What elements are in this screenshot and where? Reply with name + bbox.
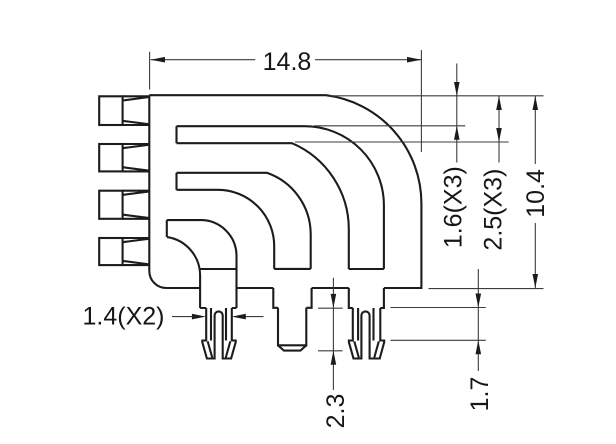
left feet chamfer lines (208, 341, 231, 357)
slot S3 inner wall into left block left side (167, 237, 200, 308)
right feet chamfer lines (354, 341, 379, 357)
ext line body bottom right (429, 288, 544, 290)
dim 14.8 extension line right (420, 50, 422, 152)
right block (349, 288, 384, 308)
slot S1 closed end (175, 126, 177, 143)
left snap legs with barbed feet (202, 308, 235, 359)
ext line body top right (330, 95, 544, 97)
slot S1 bottom closure (349, 268, 384, 270)
slot S1 inner wall (177, 143, 349, 269)
slot S1 outer wall (177, 126, 384, 269)
dim 2.3 line and arrows (332, 278, 334, 390)
prong 2 horn lines (123, 144, 150, 171)
slot S2 outer wall (177, 173, 311, 269)
prong 2 box (99, 144, 122, 171)
ext line slot1 bottom (295, 141, 509, 143)
dim 14.8 extension line left (149, 52, 151, 90)
svg-text:10.4: 10.4 (522, 169, 550, 218)
centre pin block (273, 288, 311, 308)
dim 14.8 arrowheads (151, 57, 165, 63)
left block parting line (200, 268, 236, 270)
svg-text:1.7: 1.7 (466, 377, 494, 412)
prong 1 box (99, 96, 122, 125)
right legs inner edge lines (358, 308, 373, 341)
ext lines for dim 2.3 (318, 308, 343, 351)
svg-text:1.4(X2): 1.4(X2) (83, 302, 165, 330)
left block bottom segments (200, 307, 236, 309)
dim 14.8 line (151, 59, 422, 61)
svg-text:1.6(X3): 1.6(X3) (440, 166, 468, 248)
body bottom edge segments (237, 287, 349, 289)
body outline top/right (149, 95, 421, 288)
dim 1.7 line and arrows (477, 269, 479, 371)
slot S2 inner wall (177, 190, 275, 269)
dim 2.5(X3) line and arrows (498, 96, 500, 163)
body outline left edge and bottom-left fillet (149, 95, 200, 288)
dim 1.4(X2) arrowheads (192, 314, 206, 320)
slot S3 closed end (166, 220, 168, 237)
slot S2 closed end (175, 173, 177, 190)
slot S3 outer wall into left block right side (167, 220, 237, 308)
slot S2 bottom closure (274, 268, 311, 270)
svg-text:14.8: 14.8 (263, 48, 312, 76)
prong 3 horn lines (123, 191, 150, 219)
dim 10.4 line and arrows (534, 96, 536, 288)
ext lines for dim 1.7 (390, 308, 485, 341)
right snap legs with barbed feet (349, 308, 384, 359)
prong 1 horn lines (123, 96, 150, 125)
prong 4 horn lines (123, 238, 150, 265)
prong 4 box (99, 238, 122, 265)
left legs inner edge lines (211, 308, 226, 341)
pin chamfered tip (278, 345, 306, 350)
dim 1.6(X3) line and arrows (456, 64, 458, 163)
svg-text:2.3: 2.3 (322, 394, 350, 429)
centre pin with chamfered tip (278, 308, 306, 346)
dim 1.4(X2) leader lines (172, 316, 264, 318)
prong 3 box (99, 191, 122, 219)
ext line slot1 top (314, 125, 465, 127)
svg-text:2.5(X3): 2.5(X3) (480, 169, 508, 251)
